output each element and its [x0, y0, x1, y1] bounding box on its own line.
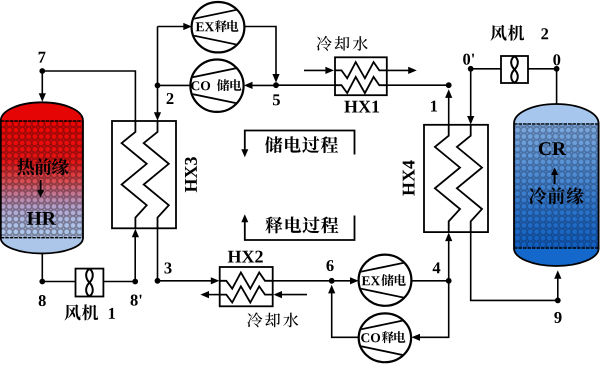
- node 7: [39, 68, 45, 74]
- node 8': [132, 279, 138, 285]
- wire node 4 up into HX4 bottom (arrow up): [448, 236, 450, 281]
- charge process bracket 储电过程: [245, 131, 355, 155]
- label 8: [39, 295, 46, 306]
- label 6: [326, 260, 333, 271]
- wire HX4 up to node 1 (arrow up): [448, 96, 450, 125]
- label 0prime: [463, 54, 474, 65]
- label 冷却水 (cooling water) bottom: [247, 312, 298, 327]
- wire node7 down into HR tank: [41, 71, 43, 95]
- label HX4 (rotated): [403, 160, 415, 195]
- wire into EX discharge turbine: [158, 26, 187, 28]
- cooling water inlet arrow HX1: [304, 69, 327, 71]
- wire node 8 to fan 1: [42, 281, 75, 283]
- label 1: [431, 101, 437, 112]
- discharge process bracket 释电过程: [245, 216, 355, 241]
- fan 风机1: [76, 269, 104, 297]
- heat exchanger HX4: [424, 125, 488, 232]
- wire node5 into CO储电 compressor: [250, 84, 276, 86]
- cooling water outlet arrow HX2 (to left): [207, 294, 220, 296]
- wire vertical through node 2 down to HX3 top-right: [157, 27, 159, 115]
- wire EX储电 to node 4: [411, 280, 448, 282]
- label 7: [39, 52, 46, 63]
- label CO 储电: [191, 81, 210, 90]
- wire HX2 to node 6: [273, 280, 332, 282]
- node 6: [329, 278, 335, 284]
- node 3: [155, 278, 161, 284]
- arrow inside CR pointing up: [554, 174, 556, 184]
- wire EX释电 output right and down to node 5: [245, 27, 276, 76]
- node 5: [273, 82, 279, 88]
- fan 风机2: [501, 56, 528, 83]
- tank CR (cold reservoir): [514, 104, 599, 266]
- label EX释电: [196, 22, 214, 31]
- node 2: [155, 83, 161, 89]
- wire node 0' to fan 2: [471, 68, 501, 70]
- label 2: [167, 93, 174, 104]
- cooling water outlet arrow HX1: [387, 69, 410, 71]
- heat exchanger HX2: [220, 267, 273, 306]
- node 8: [39, 279, 45, 285]
- wire CO释电 left then up to node 6 (arrow up): [332, 288, 359, 337]
- label HX3 (rotated): [185, 157, 197, 192]
- label 9: [554, 312, 561, 323]
- arrow inside HR pointing down: [40, 180, 42, 191]
- wire node 3 into HX2 (arrow right): [158, 280, 214, 282]
- label EX储电: [362, 276, 380, 285]
- wire fan1 to node 8': [103, 281, 135, 283]
- label 风机 2: [490, 25, 524, 41]
- label 冷前缘 (cold front): [529, 187, 584, 204]
- label 热前缘 (hot front): [17, 158, 69, 175]
- label 风机 1: [64, 304, 98, 320]
- cooling water inlet arrow HX2 (from right): [280, 294, 307, 296]
- label 4: [433, 262, 441, 273]
- label CR: [539, 142, 566, 155]
- node 4: [446, 278, 452, 284]
- label 8prime: [131, 295, 142, 306]
- label HX2: [228, 251, 263, 263]
- wire HR tank bottom to node 8: [41, 253, 43, 282]
- wire node 0 down to CR tank top: [556, 69, 558, 105]
- wire node 0' down into HX4 top (arrow down): [470, 69, 472, 118]
- wire node 8' up into HX3 bottom (arrow up): [134, 233, 136, 282]
- wire fan2 to node 0: [528, 68, 557, 70]
- tank HR (hot reservoir): [1, 102, 83, 253]
- node 0: [554, 66, 560, 72]
- wire HX4 bottom-right down then right to node 9: [471, 232, 558, 300]
- label HX1: [344, 101, 379, 113]
- wire node 6 into EX储电 (arrow right): [332, 280, 352, 282]
- label 冷却水 (cooling water) top: [317, 36, 368, 51]
- heat exchanger HX3: [112, 121, 176, 228]
- label HR: [27, 212, 56, 225]
- wire node7 right then down to HX3 top-left: [42, 71, 135, 122]
- heat exchanger HX1: [335, 57, 387, 95]
- node 1: [446, 82, 452, 88]
- wire node 4 down then left into CO释电 (arrow left): [418, 281, 449, 338]
- node 9: [555, 298, 561, 304]
- node 0': [468, 66, 474, 72]
- label CO释电: [361, 333, 380, 342]
- label 5: [273, 94, 280, 105]
- wire node 9 up into CR tank bottom (arrow up): [557, 274, 559, 300]
- label 0: [553, 54, 560, 65]
- wire node2 to CO charge compressor: [158, 84, 193, 86]
- wire HX3 bottom-right down to node 3: [157, 228, 159, 280]
- wire HX1 to node 1: [387, 84, 449, 86]
- label 3: [165, 262, 172, 273]
- wire node5 to HX1: [276, 84, 335, 86]
